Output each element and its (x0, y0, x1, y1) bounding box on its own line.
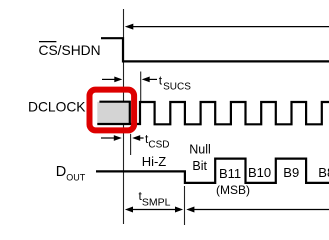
svg-text:tSMPL: tSMPL (139, 189, 171, 208)
svg-text:(MSB): (MSB) (216, 183, 250, 197)
svg-text:Bit: Bit (192, 159, 207, 173)
node: tSUCS right tick (clock rising edge extension) (140, 72, 142, 102)
wire: DOUT waveform (Hi-Z, null bit, data bits) (96, 159, 329, 183)
dimension tCSD: right piece (arrow pointing left) (132, 135, 143, 141)
dimension tSMPL: double-headed arrow (125, 207, 183, 213)
wire: first clock pulse top + falling edge (99, 102, 129, 124)
dimension: next interval arrow (cut at right edge) (186, 207, 329, 213)
dimension tSUCS: left piece (arrow pointing right at CS edge) (102, 77, 122, 83)
svg-text:CS/SHDN: CS/SHDN (39, 43, 101, 58)
label CS/SHDN (39, 42, 101, 59)
wire: CS/SHDN waveform (101, 38, 329, 61)
highlighted first clock pulse: gray fill (97, 102, 129, 124)
node: CS falling-edge reference line (long thin vertical) (123, 9, 125, 224)
svg-text:tSUCS: tSUCS (159, 74, 191, 93)
svg-text:B9: B9 (283, 165, 299, 180)
dimension tSUCS: right piece (arrow pointing left at first clock rise) (142, 77, 157, 83)
svg-text:Hi-Z: Hi-Z (142, 154, 167, 169)
red highlight box around first clock pulse (90, 90, 135, 131)
svg-text:B10: B10 (248, 165, 271, 180)
node: tSMPL right tick (null-bit edge extension) (184, 186, 186, 225)
svg-text:tCSD: tCSD (145, 132, 169, 151)
svg-text:DOUT: DOUT (56, 164, 86, 183)
svg-text:Null: Null (189, 143, 211, 157)
svg-text:B8: B8 (318, 165, 329, 180)
top dimension arrow (cycle time, cut at right edge) (125, 24, 329, 30)
node: tCSD right tick (clock falling edge extension) (130, 134, 132, 155)
svg-text:DCLOCK: DCLOCK (28, 100, 86, 115)
wire: DCLOCK waveform (low baseline + pulse train) (97, 102, 329, 124)
svg-text:B11: B11 (219, 166, 241, 181)
dimension tCSD: left piece (arrow pointing right) (101, 135, 122, 141)
